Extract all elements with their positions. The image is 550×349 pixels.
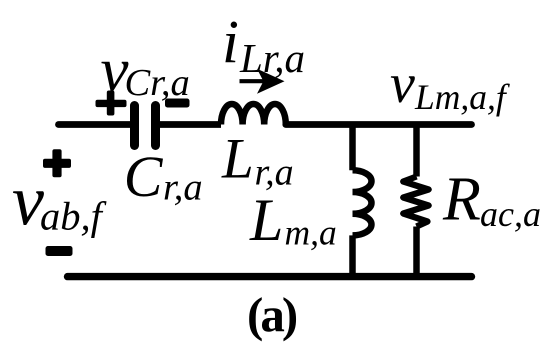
wire: Lm,a branch lower segment — [349, 235, 356, 276]
resistor Rac,a (zigzag) — [403, 177, 429, 227]
svg-text:Lm,a: Lm,a — [249, 187, 337, 253]
inductor Lm,a (magnetizing, vertical, 3 humps) — [353, 170, 372, 235]
inductor Lr,a (series resonant, 3 humps) — [221, 104, 286, 125]
polarity - (vab,f) — [46, 246, 73, 256]
capacitor Cr,a right plate — [151, 106, 160, 146]
svg-text:Lr,a: Lr,a — [221, 127, 294, 193]
svg-text:(a): (a) — [247, 287, 297, 342]
svg-text:Rac,a: Rac,a — [442, 166, 541, 234]
svg-text:vCr,a: vCr,a — [101, 35, 190, 105]
svg-text:iLr,a: iLr,a — [222, 9, 305, 81]
wire: bottom return rail — [68, 273, 472, 280]
wire: top rail left stub (input + terminal to Cr,a) — [59, 121, 135, 128]
wire: Lm,a branch upper segment — [349, 125, 356, 171]
current arrow iLr,a shaft — [240, 79, 267, 83]
current arrow iLr,a head — [257, 69, 285, 94]
wire: Cr,a to Lr,a — [156, 121, 222, 128]
svg-text:Cr,a: Cr,a — [124, 144, 203, 209]
capacitor Cr,a left plate — [130, 106, 139, 146]
polarity + (vab,f) — [43, 149, 71, 177]
wire: top rail right (node vLm,a,f) — [286, 121, 472, 128]
wire: Rac,a branch upper segment — [413, 125, 420, 177]
wire: Rac,a branch lower segment — [413, 227, 420, 277]
svg-text:vLm,a,f: vLm,a,f — [390, 53, 510, 117]
polarity + (vCr,a) — [96, 91, 127, 116]
polarity - (vCr,a) — [165, 99, 190, 108]
